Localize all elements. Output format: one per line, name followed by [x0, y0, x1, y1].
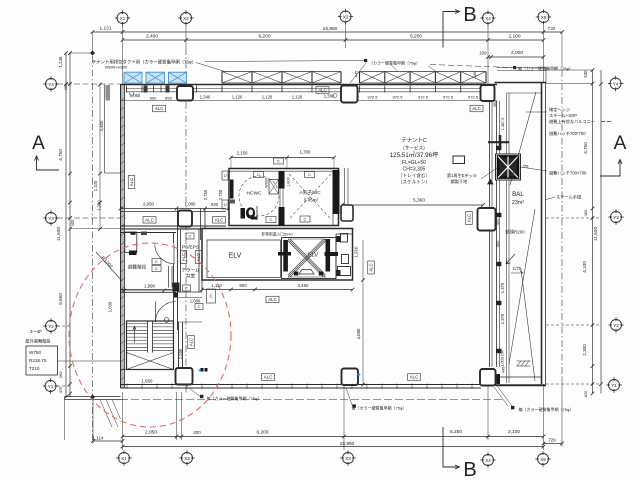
grid bubble X4 bottom — [480, 452, 495, 467]
grid bubble X5 bottom — [535, 451, 550, 466]
column top A — [177, 86, 193, 101]
escape hatch square — [496, 154, 521, 180]
duct box with X — [269, 180, 279, 195]
grid bubble Y4 right — [608, 76, 623, 91]
svg-text:ALC: ALC — [268, 297, 277, 302]
corner point marker — [91, 51, 95, 55]
toilet block outer walls — [229, 169, 339, 226]
grid bubble X1 top — [115, 10, 130, 25]
svg-text:1,114: 1,114 — [92, 436, 104, 441]
svg-text:2,050: 2,050 — [145, 430, 157, 436]
svg-text:X2: X2 — [183, 16, 189, 21]
turning radius red dashed circle — [69, 243, 231, 427]
svg-text:6,200: 6,200 — [258, 34, 270, 40]
svg-text:200: 200 — [193, 430, 201, 435]
hatched shaft box — [173, 283, 180, 292]
svg-text:避難ハッチ700*700: 避難ハッチ700*700 — [549, 130, 586, 137]
corner point marker bottom — [91, 395, 95, 399]
svg-text:BAL: BAL — [512, 191, 524, 198]
svg-text:C: C — [223, 203, 228, 206]
svg-text:（サービス）: （サービス） — [400, 145, 428, 152]
svg-text:450: 450 — [495, 240, 500, 247]
svg-text:DR: DR — [500, 350, 505, 356]
svg-text:450: 450 — [495, 218, 500, 225]
label ALC left wall vertical — [128, 176, 135, 189]
svg-text:2,150: 2,150 — [237, 151, 249, 156]
svg-text:毎（カラー硬質亀甲網（75φ）: 毎（カラー硬質亀甲網（75φ） — [351, 405, 406, 411]
svg-text:C: C — [189, 234, 192, 239]
label ALC right wall — [466, 212, 473, 225]
site boundary dashed right — [561, 70, 563, 376]
right dim stubs — [546, 83, 593, 85]
svg-text:ALC: ALC — [318, 88, 327, 93]
svg-text:W750: W750 — [29, 350, 41, 355]
stair treads — [127, 321, 174, 370]
svg-text:C: C — [185, 286, 188, 291]
svg-text:920: 920 — [211, 202, 219, 207]
label ALC stair east — [188, 336, 195, 349]
svg-text:スチール手摺: スチール手摺 — [556, 194, 581, 201]
label ALC corridor band 2 — [213, 217, 226, 224]
stair side wall right — [173, 233, 175, 244]
grid bubble Y2 left — [43, 318, 58, 333]
svg-text:23m²: 23m² — [512, 200, 524, 206]
building wall right inner — [489, 101, 491, 367]
bottom leader net label 2 — [353, 404, 356, 407]
grid line X0 dashed — [92, 56, 94, 440]
svg-text:4,750: 4,750 — [58, 149, 63, 161]
svg-text:朝顔R200: 朝顔R200 — [505, 229, 525, 236]
svg-text:900: 900 — [239, 283, 247, 288]
grid bubble X3 bottom — [340, 450, 355, 465]
elv dim row — [202, 289, 353, 291]
svg-text:450: 450 — [492, 100, 497, 107]
column corridor — [178, 211, 192, 227]
column bottom B — [342, 369, 359, 386]
svg-text:ALC: ALC — [196, 253, 201, 261]
left inner dims 3,400/1,100/1,000 — [99, 85, 101, 230]
window band dark posts — [144, 86, 148, 93]
elevator block outer wall — [202, 229, 353, 281]
drain corner hatch — [517, 361, 521, 366]
partition wall toilet — [279, 171, 285, 189]
svg-text:Y1: Y1 — [48, 384, 54, 389]
svg-text:11,500: 11,500 — [56, 227, 62, 242]
balcony bottom edge — [496, 376, 542, 378]
svg-text:X4: X4 — [485, 16, 491, 21]
svg-text:X3: X3 — [343, 14, 349, 19]
toilet right wall black shaft — [333, 170, 340, 214]
grid bubble X2 bottom — [179, 450, 194, 465]
label ALC below elv — [266, 296, 279, 303]
svg-text:屋外避難階段: 屋外避難階段 — [25, 338, 51, 345]
svg-text:1,110: 1,110 — [211, 283, 222, 288]
net label top right — [513, 66, 516, 69]
svg-text:11,500: 11,500 — [593, 227, 599, 242]
svg-text:2,400: 2,400 — [146, 34, 158, 40]
radius leader R3,000 — [96, 252, 122, 281]
svg-text:5,250: 5,250 — [450, 429, 462, 435]
svg-text:Y3: Y3 — [613, 215, 619, 220]
svg-text:1,990: 1,990 — [144, 284, 156, 289]
svg-text:1,910: 1,910 — [354, 246, 359, 258]
svg-text:729: 729 — [548, 438, 556, 443]
svg-text:2,050: 2,050 — [143, 202, 155, 207]
svg-text:4,750: 4,750 — [583, 142, 588, 154]
svg-text:ALC: ALC — [189, 338, 194, 346]
svg-text:2,590: 2,590 — [178, 348, 183, 359]
vestibule door arc — [155, 302, 157, 323]
svg-text:C: C — [257, 172, 260, 177]
dim bottom 1,114 — [93, 440, 123, 442]
svg-text:15,950: 15,950 — [323, 26, 338, 32]
toilet C boxes — [254, 172, 264, 178]
label ALC top band — [153, 105, 166, 112]
svg-text:W600×H300: W600×H300 — [105, 65, 128, 70]
svg-text:B: B — [463, 459, 476, 480]
shaft right of toilet block — [344, 168, 346, 205]
svg-text:第1再生Eデッキ: 第1再生Eデッキ — [447, 172, 477, 179]
svg-text:Y4: Y4 — [613, 81, 619, 86]
svg-text:PS/EPS: PS/EPS — [182, 245, 199, 251]
svg-text:ALC: ALC — [129, 178, 134, 186]
svg-text:1,136: 1,136 — [58, 56, 63, 68]
svg-text:（トレイ含む）: （トレイ含む） — [398, 172, 430, 179]
svg-text:X3: X3 — [345, 456, 351, 461]
svg-text:ALC: ALC — [264, 375, 273, 380]
dim row top outer 1,131 / 15,950 / 732 — [93, 31, 563, 33]
balcony slope lines — [510, 92, 536, 185]
svg-text:A男子/WC: A男子/WC — [299, 189, 321, 196]
svg-text:ALC: ALC — [181, 253, 186, 261]
svg-text:C: C — [198, 304, 201, 309]
svg-text:2,000: 2,000 — [511, 50, 523, 56]
blue dots bottom wall — [199, 369, 202, 372]
svg-text:1,340: 1,340 — [200, 95, 211, 100]
svg-text:5,250: 5,250 — [410, 34, 422, 40]
grid line X2 dashed — [185, 48, 187, 393]
svg-text:C: C — [155, 266, 158, 271]
balcony notes right — [549, 106, 595, 137]
stair mid wall — [121, 289, 177, 291]
dim row top sub 100 / 2,000 — [488, 56, 544, 58]
svg-text:125.51㎡/37.96坪: 125.51㎡/37.96坪 — [390, 151, 439, 159]
svg-text:A: A — [32, 133, 45, 154]
label ALC bottom 2 — [408, 374, 421, 381]
svg-text:C: C — [304, 217, 307, 222]
dim 5,360 — [342, 204, 483, 206]
svg-text:820: 820 — [583, 390, 588, 397]
svg-text:1,370: 1,370 — [500, 282, 505, 293]
svg-text:C: C — [209, 294, 212, 299]
hatch triangle marker — [488, 179, 493, 184]
svg-text:X5: X5 — [541, 15, 547, 20]
svg-text:X1: X1 — [120, 16, 126, 21]
blue ring mark — [130, 92, 134, 96]
svg-text:確定ヘッジ: 確定ヘッジ — [549, 106, 570, 113]
blue ring mark 2 — [333, 94, 337, 98]
external stair bottom left — [65, 396, 121, 398]
wall left outer — [121, 85, 124, 389]
svg-text:C: C — [223, 174, 228, 177]
svg-text:B: B — [463, 4, 476, 26]
svg-text:毎（カラー硬質亀甲網（75φ）: 毎（カラー硬質亀甲網（75φ） — [206, 395, 261, 401]
svg-text:476: 476 — [58, 386, 63, 393]
bottom leader net label 1 — [200, 395, 203, 398]
closet wall pair — [168, 266, 170, 288]
svg-text:C: C — [277, 159, 280, 164]
section mark B bottom — [443, 427, 458, 467]
grid bubble X3 top — [338, 9, 353, 24]
grid bubble X2 top — [178, 10, 193, 25]
grid bubble Y1 right — [606, 377, 621, 392]
svg-text:2,750: 2,750 — [218, 189, 223, 200]
svg-text:R218.75: R218.75 — [29, 358, 47, 363]
svg-text:ELV: ELV — [308, 253, 318, 259]
left dim line outer 11,500 — [65, 53, 67, 397]
svg-text:T210: T210 — [29, 366, 40, 371]
svg-text:360: 360 — [63, 83, 68, 90]
svg-text:Y3: Y3 — [48, 216, 54, 221]
svg-text:X2: X2 — [184, 456, 190, 461]
bottom leader net label 3 — [511, 406, 514, 409]
dim row mid-left 2,050/1,080/920 — [119, 207, 123, 211]
svg-text:360: 360 — [58, 371, 63, 378]
label ALC vertical PS left — [180, 251, 187, 264]
svg-text:3〜4F: 3〜4F — [30, 329, 42, 334]
toilet top dim row 2,150/1,700 — [231, 157, 334, 159]
svg-text:972.5: 972.5 — [468, 95, 479, 100]
grid bubble X4 top — [480, 10, 495, 25]
svg-text:972.5: 972.5 — [392, 95, 403, 100]
svg-text:1,080: 1,080 — [190, 299, 201, 304]
svg-text:6,200: 6,200 — [256, 430, 268, 436]
label ALC corridor band 1 — [143, 217, 156, 224]
label ALC vertical right of elv — [368, 261, 375, 274]
dim row bottom inner 2,050/200/6,200/5,250/2,100 — [123, 436, 544, 438]
svg-text:Y1: Y1 — [611, 383, 617, 388]
svg-text:5,360: 5,360 — [413, 198, 425, 204]
toilet fixture — [241, 208, 246, 219]
svg-text:ELV: ELV — [229, 253, 242, 260]
svg-text:1,100: 1,100 — [93, 180, 98, 191]
label ALC vertical PS right — [195, 251, 202, 264]
svg-text:2,100: 2,100 — [508, 429, 520, 435]
svg-text:C: C — [308, 172, 311, 177]
stair east wall lower — [178, 322, 180, 368]
svg-text:1,080: 1,080 — [185, 202, 197, 207]
grid bubble Y3 left — [43, 210, 58, 225]
svg-text:1,000: 1,000 — [108, 301, 113, 312]
eave line left — [104, 85, 106, 174]
svg-text:5,650: 5,650 — [58, 293, 63, 305]
svg-text:3,460: 3,460 — [298, 283, 310, 288]
overhang dashed line bottom — [120, 399, 505, 401]
svg-text:100: 100 — [479, 51, 487, 56]
svg-text:避難上有効なバルコニー: 避難上有効なバルコニー — [549, 118, 595, 125]
svg-text:FL=GL+50: FL=GL+50 — [402, 160, 426, 166]
leader drops to truss — [390, 64, 398, 72]
svg-text:2,300: 2,300 — [582, 344, 587, 356]
truss canopy left section — [222, 72, 341, 84]
svg-text:ALC: ALC — [467, 214, 472, 222]
svg-text:1,120: 1,120 — [232, 95, 243, 100]
svg-text:1,000: 1,000 — [97, 200, 102, 211]
tenant C text block — [390, 137, 439, 185]
svg-text:732: 732 — [548, 26, 556, 31]
svg-text:W800: W800 — [265, 178, 269, 188]
svg-text:1,387.5: 1,387.5 — [501, 118, 505, 131]
svg-text:ALC: ALC — [369, 263, 374, 271]
svg-text:避難階段: 避難階段 — [128, 264, 147, 271]
svg-text:1,000: 1,000 — [500, 356, 505, 367]
grid bubble Y4 left — [43, 76, 58, 91]
svg-text:972.5: 972.5 — [367, 95, 378, 100]
top window band — [127, 88, 481, 90]
left dim line inner segments — [69, 53, 71, 397]
grid bubble Y1 left — [43, 378, 58, 393]
svg-text:CH=3,305: CH=3,305 — [403, 167, 426, 173]
svg-text:ALC: ALC — [155, 106, 164, 111]
svg-text:（スケルトン）: （スケルトン） — [398, 179, 430, 185]
svg-text:鋼製下地: 鋼製下地 — [451, 178, 469, 185]
corridor wall band south of tenant space — [121, 208, 227, 210]
svg-text:972.5: 972.5 — [418, 95, 429, 100]
stair lower diagonals — [127, 353, 174, 370]
fire box — [453, 156, 465, 164]
HCWC turning circle dashed — [239, 176, 279, 216]
svg-text:630: 630 — [583, 70, 588, 78]
PS shaft west wall upper — [200, 209, 202, 241]
column bottom A — [176, 368, 193, 385]
balcony top edge — [495, 82, 547, 84]
black posts near corridor bottom — [201, 368, 204, 372]
balcony handrail inner line — [506, 93, 508, 383]
svg-text:1,120: 1,120 — [262, 95, 273, 100]
svg-text:X5: X5 — [540, 457, 546, 462]
stair spec box — [26, 346, 58, 375]
survey cross — [488, 141, 509, 143]
svg-text:1,800: 1,800 — [287, 177, 291, 187]
stair room door arc — [173, 244, 175, 264]
svg-text:972.5: 972.5 — [443, 95, 454, 100]
svg-text:2,750: 2,750 — [203, 189, 208, 200]
mens WC dashed X — [289, 174, 331, 219]
column right mid — [478, 208, 496, 231]
svg-text:Y2: Y2 — [48, 324, 54, 329]
column right bottom corner — [480, 369, 496, 386]
dim row top inner 2,400 / 6,200 / 5,250 / 2,100 — [123, 39, 544, 41]
grid bubble X1 bottom — [116, 450, 131, 465]
PS EPS shaft walls — [180, 229, 182, 293]
svg-text:1,131: 1,131 — [99, 26, 111, 32]
svg-text:1,370: 1,370 — [500, 313, 505, 324]
svg-text:1/75: 1/75 — [513, 266, 522, 271]
elevator hall inner — [207, 240, 281, 278]
stair room fixtures — [125, 232, 137, 253]
svg-text:X1: X1 — [121, 456, 127, 461]
small C boxes stair area — [152, 259, 161, 265]
svg-text:850: 850 — [165, 96, 172, 101]
svg-text:スチール+SOP: スチール+SOP — [549, 113, 577, 118]
wall right outer balcony — [541, 83, 543, 385]
stair room north wall — [121, 228, 177, 230]
svg-text:非常用進入口50×0: 非常用進入口50×0 — [261, 232, 292, 237]
svg-text:1,950: 1,950 — [142, 379, 154, 384]
svg-text:1,120: 1,120 — [292, 95, 303, 100]
stair bottom landing — [121, 369, 127, 371]
wall top outer — [121, 84, 498, 86]
svg-text:ALC: ALC — [145, 217, 154, 222]
svg-text:Y4: Y4 — [48, 82, 54, 87]
grid bubble X5 top — [536, 9, 551, 24]
elevator shaft — [278, 238, 338, 279]
HCWC left wall fixtures — [230, 180, 234, 199]
section mark B top — [443, 12, 458, 48]
svg-text:2,100: 2,100 — [508, 34, 520, 40]
svg-text:4,080: 4,080 — [356, 328, 361, 340]
svg-text:400: 400 — [70, 219, 75, 227]
right dim line outer 11,500 — [600, 70, 602, 394]
svg-text:ALC: ALC — [215, 217, 224, 222]
svg-text:HCWC: HCWC — [247, 191, 262, 197]
stair up arrow — [134, 327, 136, 343]
svg-text:ALC: ALC — [472, 106, 481, 111]
dim row bottom total 15,950 / 729 — [123, 446, 544, 448]
svg-text:500: 500 — [150, 96, 157, 101]
svg-text:編（カラー硬質亀甲網（75φ）: 編（カラー硬質亀甲網（75φ） — [518, 406, 573, 412]
vestibule inner lines — [178, 297, 203, 299]
svg-text:（カラー硬質亀甲網（75φ）: （カラー硬質亀甲網（75φ） — [369, 60, 420, 66]
dim extension lines bottom — [122, 392, 124, 450]
net leader line — [205, 61, 364, 62]
vent grille blue hatched panels — [124, 72, 187, 83]
east wall bottom post — [497, 374, 501, 384]
column top right corner — [481, 85, 495, 101]
wall bottom — [121, 384, 482, 386]
label ALC bottom 1 — [262, 374, 275, 381]
svg-text:避難ハッチ700×700: 避難ハッチ700×700 — [549, 170, 587, 177]
svg-text:1,700: 1,700 — [300, 150, 312, 155]
svg-text:4,100: 4,100 — [582, 261, 587, 273]
column top B — [341, 86, 358, 103]
dim 4,080 line — [362, 240, 364, 385]
svg-text:C: C — [155, 259, 158, 264]
svg-text:C: C — [270, 217, 273, 222]
right dim line inner segments — [592, 70, 594, 394]
left dim stubs to bubbles — [57, 217, 126, 219]
grid bubble Y3 right — [608, 209, 623, 224]
top band inner line — [121, 100, 498, 102]
svg-text:15,950: 15,950 — [340, 441, 355, 447]
svg-text:テナントC: テナントC — [401, 137, 427, 144]
svg-text:Y2: Y2 — [613, 323, 619, 328]
svg-text:編（カラー硬質亀甲網（75φ）: 編（カラー硬質亀甲網（75φ） — [518, 65, 573, 71]
elevator right cell — [335, 234, 337, 279]
wall stub top-left corner — [106, 85, 111, 101]
svg-text:弁室: 弁室 — [186, 273, 196, 280]
dim extension lines top — [122, 25, 124, 84]
svg-text:445: 445 — [472, 71, 477, 78]
svg-text:A: A — [614, 133, 627, 154]
svg-text:3,400: 3,400 — [99, 120, 104, 132]
svg-text:ALC: ALC — [410, 375, 419, 380]
svg-text:9.45m²: 9.45m² — [304, 198, 319, 203]
corridor door arc — [342, 208, 344, 226]
svg-text:X4: X4 — [485, 458, 491, 463]
truss canopy right section — [360, 72, 487, 84]
grid bubble Y2 right — [608, 317, 623, 332]
